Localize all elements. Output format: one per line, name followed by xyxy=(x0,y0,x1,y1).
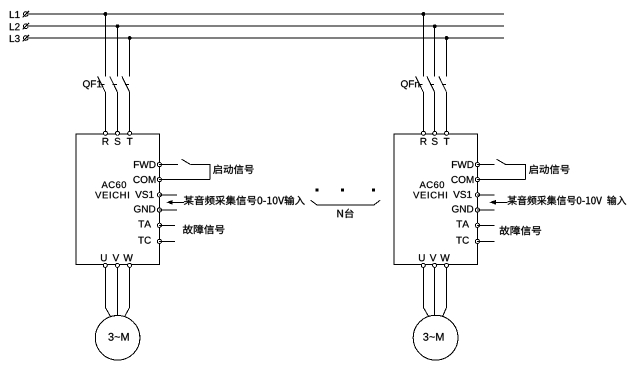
arrow 0-10V input U1 xyxy=(166,200,172,205)
label T U1 xyxy=(127,138,133,145)
inverter U1 box xyxy=(76,134,159,265)
terminal VS1 U1 xyxy=(157,193,161,197)
terminal FWD Un xyxy=(475,163,479,167)
terminal U U1 xyxy=(103,263,107,267)
ellipsis dot 1 xyxy=(316,189,319,192)
terminal COM U1 xyxy=(157,178,161,182)
wire rail L2 xyxy=(29,25,504,27)
terminal S U1 xyxy=(116,131,120,135)
wire drop L2 right xyxy=(434,26,436,76)
label R Un xyxy=(421,138,427,145)
wire QF1 pole 1 to inverter xyxy=(104,92,106,131)
terminal W U1 xyxy=(128,263,132,267)
terminal T Un xyxy=(445,131,449,135)
terminal V Un xyxy=(433,263,437,267)
wire FWD Un xyxy=(477,164,495,166)
wire FWD U1 xyxy=(159,164,178,166)
wire corner down U1 xyxy=(209,164,211,180)
label 3~M Mn xyxy=(423,333,443,341)
breaker QF1 pole 3 blade xyxy=(122,76,130,91)
label 0-10V signal Un xyxy=(508,196,627,205)
terminal W Un xyxy=(445,263,449,267)
wire rail L1 xyxy=(29,13,504,15)
terminal TC Un xyxy=(475,239,479,243)
breaker QFn pole 2 blade xyxy=(427,76,435,91)
breaker QFn pole 3 blade xyxy=(439,76,447,91)
terminal GND U1 xyxy=(157,208,161,212)
terminal COM Un xyxy=(475,178,479,182)
label L1 xyxy=(10,11,20,18)
wire VS1 stub U1 xyxy=(159,194,177,196)
wire rail L3 xyxy=(29,37,504,39)
ellipsis dot 2 xyxy=(341,189,344,192)
label VS1 U1 xyxy=(135,191,153,198)
label start signal U1 xyxy=(213,165,254,174)
breaker QF1 pole 1 blade xyxy=(98,76,106,91)
terminal GND Un xyxy=(475,208,479,212)
label COM Un xyxy=(451,176,473,183)
junction dot L1 left xyxy=(104,12,108,16)
terminal T U1 xyxy=(128,131,132,135)
motor M1 circle xyxy=(95,316,140,361)
breaker QF1 pole 2 tick xyxy=(113,83,117,85)
label VEICHI U1 xyxy=(95,192,129,199)
wire QFn pole 3 to inverter xyxy=(446,92,448,131)
label QF1 xyxy=(83,80,102,89)
junction dot L3 left xyxy=(128,36,132,40)
terminal V U1 xyxy=(115,263,119,267)
label GND U1 xyxy=(134,205,155,212)
label V Un xyxy=(430,254,437,261)
label U Un xyxy=(419,254,425,261)
label COM U1 xyxy=(133,176,155,183)
terminal R Un xyxy=(421,131,425,135)
label L3 xyxy=(10,35,20,42)
label FWD Un xyxy=(452,161,474,168)
label QFn xyxy=(401,80,419,89)
wire V-phase motor M1 xyxy=(116,267,118,316)
breaker QF1 pole 1 tick xyxy=(101,83,105,85)
label R U1 xyxy=(103,138,109,145)
label L2 xyxy=(10,23,20,30)
wire TA stub Un xyxy=(477,224,494,226)
breaker QFn pole 3 tick xyxy=(442,83,446,85)
wire TC stub Un xyxy=(477,240,494,242)
wire corner down Un xyxy=(524,164,526,180)
wire W-phase motor Mn xyxy=(443,267,447,316)
label TA Un xyxy=(456,221,469,228)
motor Mn circle xyxy=(413,315,458,360)
breaker QFn pole 1 blade xyxy=(416,76,424,91)
brace N units xyxy=(311,200,381,205)
label S Un xyxy=(432,138,438,145)
wire drop L1 right xyxy=(422,14,424,77)
wire drop L3 right xyxy=(446,38,448,77)
label U U1 xyxy=(101,254,107,261)
terminal FWD U1 xyxy=(157,163,161,167)
label TC U1 xyxy=(138,237,151,244)
label AC60 Un xyxy=(420,181,445,188)
wire TC stub U1 xyxy=(159,240,175,242)
wire U-phase motor M1 xyxy=(105,267,110,316)
breaker QF1 pole 3 tick xyxy=(125,83,129,85)
terminal TA U1 xyxy=(157,223,161,227)
label S U1 xyxy=(115,138,121,145)
arrow 0-10V input Un xyxy=(490,200,496,205)
wire drop L2 left xyxy=(117,26,119,76)
junction dot L1 right xyxy=(422,12,426,16)
junction dot L2 right xyxy=(433,24,437,28)
label T Un xyxy=(444,138,450,145)
label GND Un xyxy=(452,205,473,212)
wire QFn pole 2 to inverter xyxy=(434,92,436,131)
terminal U Un xyxy=(421,263,425,267)
wire TA stub U1 xyxy=(159,224,175,226)
wire drop L3 left xyxy=(129,38,131,77)
wire switch to corner U1 xyxy=(190,164,210,166)
junction dot L3 right xyxy=(445,36,449,40)
wire QF1 pole 3 to inverter xyxy=(129,92,131,131)
ellipsis dot 3 xyxy=(372,189,375,192)
label 3~M M1 xyxy=(108,333,128,341)
breaker QFn pole 2 tick xyxy=(430,83,434,85)
label AC60 U1 xyxy=(102,181,127,188)
label 0-10V signal U1 xyxy=(184,196,305,205)
wire GND stub U1 xyxy=(159,209,177,211)
breaker QFn pole 1 tick xyxy=(419,83,423,85)
label FWD U1 xyxy=(134,161,156,168)
wire drop L1 left xyxy=(104,14,106,77)
terminal L3 xyxy=(24,36,29,41)
wire QF1 pole 2 to inverter xyxy=(117,92,119,131)
wire QFn pole 1 to inverter xyxy=(422,92,424,131)
label VEICHI Un xyxy=(413,192,447,199)
terminal TC U1 xyxy=(157,239,161,243)
switch start-signal Un blade xyxy=(497,159,506,164)
breaker QF1 pole 2 blade xyxy=(110,76,118,91)
label W Un xyxy=(440,254,449,261)
switch start-signal U1 blade xyxy=(182,159,191,164)
wire GND stub Un xyxy=(477,209,494,211)
label V U1 xyxy=(113,254,120,261)
label N units xyxy=(337,209,353,218)
label fault signal Un xyxy=(500,226,541,235)
label VS1 Un xyxy=(453,191,471,198)
label TA U1 xyxy=(138,221,151,228)
wire switch to corner Un xyxy=(506,164,526,166)
label fault signal U1 xyxy=(183,225,225,234)
terminal R U1 xyxy=(103,131,107,135)
wire U-phase motor Mn xyxy=(423,267,428,316)
terminal L1 xyxy=(24,12,29,17)
terminal TA Un xyxy=(475,223,479,227)
wire COM return U1 xyxy=(159,179,210,181)
terminal L2 xyxy=(24,24,29,29)
label start signal Un xyxy=(529,165,570,174)
wire W-phase motor M1 xyxy=(125,267,130,316)
label W U1 xyxy=(123,254,132,261)
label TC Un xyxy=(456,237,469,244)
junction dot L2 left xyxy=(116,24,120,28)
inverter Un box xyxy=(394,134,477,265)
wire VS1 stub Un xyxy=(477,194,494,196)
terminal VS1 Un xyxy=(475,193,479,197)
wire V-phase motor Mn xyxy=(434,267,436,315)
wire COM return Un xyxy=(477,179,525,181)
terminal S Un xyxy=(433,131,437,135)
